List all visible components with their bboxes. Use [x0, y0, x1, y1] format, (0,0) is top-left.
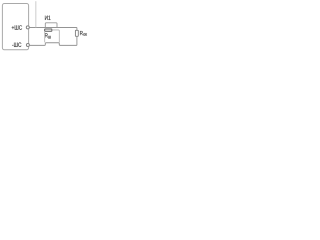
wire: Rок top lead [76, 28, 78, 31]
label И1 [45, 16, 51, 20]
detector И1 housing outline [45, 30, 60, 43]
label Rш [45, 33, 51, 38]
terminal +ШС [26, 26, 29, 29]
label -ШС [12, 43, 21, 47]
label Rок [80, 31, 87, 36]
label +ШС [12, 25, 22, 29]
wire: vertical branch up from junction at x36 [35, 1, 37, 27]
wire: Rок bottom lead [76, 36, 78, 45]
wire: top run from +ШС to Rок corner [29, 27, 77, 29]
wire: -ШС run with jog over housing bottom [29, 43, 77, 46]
resistor Rш [45, 29, 52, 31]
background [0, 0, 90, 51]
resistor Rок [75, 30, 78, 36]
panel box ППКОП [2, 4, 28, 50]
contact box of detector И1 [45, 23, 57, 28]
terminal -ШС [26, 44, 29, 47]
